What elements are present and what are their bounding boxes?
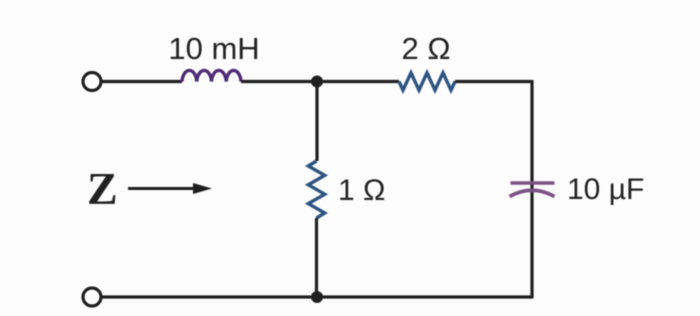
wire top node to resistor R2	[317, 80, 399, 83]
svg-text:10 mH: 10 mH	[168, 31, 259, 66]
svg-text:Z: Z	[87, 163, 118, 214]
wire inductor to top node	[241, 80, 317, 83]
node B bottom junction	[311, 291, 323, 303]
capacitor C1 bottom curved plate	[510, 190, 555, 196]
svg-text:1 Ω: 1 Ω	[338, 174, 385, 207]
inductor L1 10 mH	[182, 70, 241, 81]
node A top junction	[311, 76, 323, 88]
wire top node down to resistor R1	[315, 82, 318, 162]
resistor R1 1 ohm (vertical)	[308, 161, 324, 218]
terminal bottom-left	[83, 288, 101, 306]
arrow (impedance direction)	[128, 187, 196, 190]
wire resistor R2 to top-right corner	[455, 80, 532, 83]
terminal top-left	[83, 73, 101, 91]
wire right branch vertical	[530, 80, 533, 299]
svg-text:10 µF: 10 µF	[567, 173, 644, 206]
wire bottom	[102, 295, 533, 298]
svg-text:2 Ω: 2 Ω	[401, 31, 450, 66]
wire top-left terminal to inductor	[102, 80, 183, 83]
resistor R2 2 ohm	[399, 73, 455, 90]
wire resistor R1 to bottom node	[315, 218, 318, 297]
capacitor C1 top plate	[511, 181, 555, 185]
